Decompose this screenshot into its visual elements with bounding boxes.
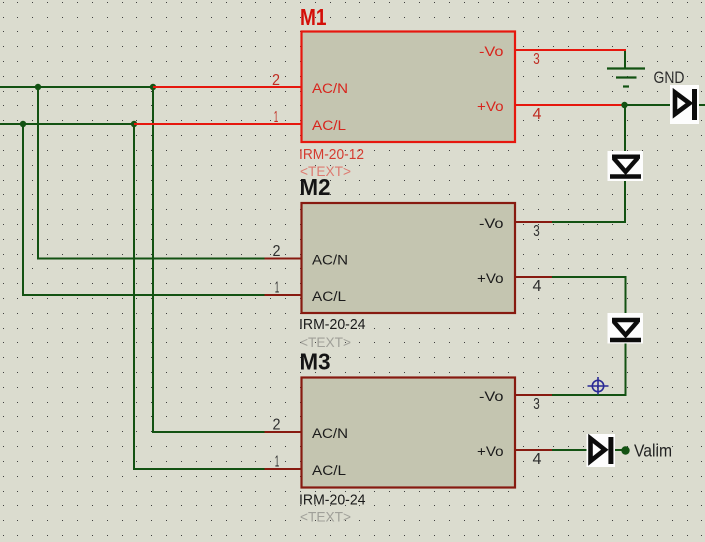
module M1 body — [302, 32, 516, 143]
zener DZ1 — [608, 151, 644, 181]
svg-text:+Vo: +Vo — [477, 99, 504, 115]
svg-text:GND: GND — [654, 69, 685, 87]
svg-text:4: 4 — [533, 451, 542, 468]
wire vertical AC/N to M3 — [153, 87, 265, 432]
wire AC/L net left horizontal — [0, 123, 134, 125]
wire junction down to zener DZ1 — [624, 105, 626, 152]
zener DZ2 — [608, 313, 644, 344]
svg-text:1: 1 — [275, 454, 280, 471]
pin stub M2 AC/L — [265, 294, 302, 296]
svg-text:M1: M1 — [300, 4, 327, 30]
module M3 body — [302, 378, 516, 488]
svg-text:2: 2 — [273, 417, 281, 434]
svg-text:-Vo: -Vo — [479, 216, 504, 232]
svg-text:IRM-20-24: IRM-20-24 — [299, 491, 366, 508]
junction dot AC/L x134 — [131, 121, 137, 127]
wire D1 to right edge — [699, 104, 705, 106]
svg-text:+Vo: +Vo — [477, 271, 504, 287]
wire M3 pin4 to diode D2 — [552, 449, 587, 451]
svg-text:Valim: Valim — [634, 440, 672, 460]
svg-text:2: 2 — [273, 243, 281, 260]
svg-text:<TEXT>: <TEXT> — [300, 335, 351, 350]
wire vertical AC/N to M2 — [38, 87, 265, 259]
svg-text:-Vo: -Vo — [479, 44, 504, 60]
wire vertical AC/L to M3 — [134, 124, 265, 469]
svg-text:1: 1 — [275, 280, 280, 297]
svg-text:IRM-20-24: IRM-20-24 — [299, 316, 366, 333]
pin stub M2 AC/N — [265, 258, 302, 260]
junction dot +Vo net — [621, 102, 627, 108]
wire vertical AC/L to M2 — [23, 124, 265, 295]
junction dot AC/N x153 — [150, 84, 156, 90]
pin stub M3 pin4 — [515, 449, 552, 451]
svg-text:3: 3 — [533, 51, 540, 68]
svg-text:4: 4 — [533, 106, 542, 123]
svg-text:AC/L: AC/L — [312, 463, 346, 479]
svg-text:-Vo: -Vo — [479, 389, 504, 405]
svg-text:M3: M3 — [300, 349, 331, 375]
svg-text:3: 3 — [533, 223, 540, 240]
terminal dot Valim — [621, 446, 629, 454]
pin stub M3 pin3 — [515, 394, 552, 396]
diode D2 — [587, 434, 616, 467]
wire M2 pin4 to zener DZ2 — [552, 277, 626, 314]
pin stub M2 pin3 — [515, 221, 552, 223]
svg-text:AC/L: AC/L — [312, 118, 346, 134]
wire red M1 AC/N — [153, 86, 301, 88]
svg-text:2: 2 — [272, 72, 280, 89]
svg-text:M2: M2 — [300, 174, 331, 200]
svg-text:3: 3 — [533, 396, 540, 413]
wire AC/N net left horizontal — [0, 86, 153, 88]
module M2 body — [302, 203, 516, 313]
ground symbol — [607, 69, 645, 87]
wire red M1 -Vo to ground corner — [515, 50, 625, 52]
wire junction to diode D1 — [625, 104, 671, 106]
svg-text:<TEXT>: <TEXT> — [300, 509, 351, 524]
wire DZ2 to M3 pin 3 — [552, 342, 626, 395]
pin stub M3 AC/L — [265, 468, 302, 470]
svg-text:AC/L: AC/L — [312, 289, 346, 305]
junction dot AC/L x23 — [20, 121, 26, 127]
svg-text:1: 1 — [274, 109, 279, 126]
svg-text:IRM-20-12: IRM-20-12 — [299, 146, 364, 163]
svg-text:AC/N: AC/N — [312, 81, 348, 97]
pin stub M2 pin4 — [515, 276, 552, 278]
svg-text:+Vo: +Vo — [477, 444, 504, 460]
pin stub M3 AC/N — [265, 431, 302, 433]
wire D2 to Valim terminal — [615, 449, 623, 451]
svg-text:AC/N: AC/N — [312, 253, 348, 269]
origin marker — [588, 377, 609, 395]
svg-text:AC/N: AC/N — [312, 426, 348, 442]
svg-text:4: 4 — [533, 278, 542, 295]
junction dot AC/N x38 — [35, 84, 41, 90]
ground stem wire — [624, 51, 626, 68]
wire red M1 +Vo to junction — [515, 104, 625, 106]
diode D1 — [670, 85, 699, 124]
wire DZ1 to M2 pin 3 — [552, 180, 625, 222]
wire red M1 AC/L — [134, 123, 301, 125]
